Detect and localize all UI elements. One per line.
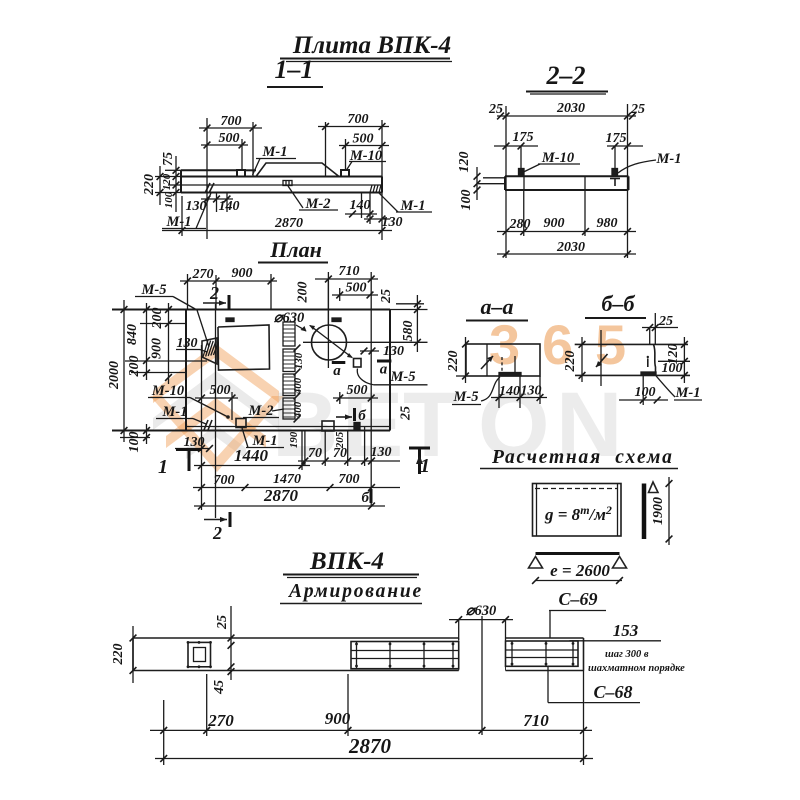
a-a dim line 220: [465, 337, 467, 383]
svg-text:T: T: [403, 374, 459, 476]
plan ext x187: [187, 274, 189, 310]
plan dim line 1440: [194, 465, 310, 467]
plan embed small b: [354, 423, 360, 430]
2-2 cut continuation lines left: [483, 177, 505, 179]
plan dim line 500 mid: [333, 397, 378, 399]
svg-text:М-1: М-1: [162, 404, 188, 420]
svg-text:710: 710: [523, 711, 549, 730]
a-a box: [466, 344, 540, 376]
svg-text:М-10: М-10: [151, 383, 184, 399]
svg-text:200: 200: [150, 308, 165, 330]
plan strip ticks: [294, 345, 301, 352]
arm dim line 270/900/710: [150, 729, 592, 731]
a-a dim line 140/130: [491, 397, 547, 399]
svg-text:25: 25: [215, 615, 230, 630]
svg-text:⌀630: ⌀630: [466, 603, 496, 619]
svg-text:Расчетная схема: Расчетная схема: [491, 447, 674, 468]
svg-text:130: 130: [383, 344, 404, 359]
plan ext x371 tall: [370, 272, 372, 507]
section 1-1 slab right edge: [381, 177, 383, 193]
svg-text:900: 900: [232, 266, 253, 281]
plan dim line 580: [416, 295, 418, 352]
ext line x216: [216, 193, 218, 213]
svg-text:e = 2600: e = 2600: [550, 561, 610, 580]
section 1-1 slab bottom line: [181, 192, 382, 194]
plan dim line 270/900: [180, 280, 277, 282]
band bottom left part: [133, 670, 459, 672]
watermark hexagon logo chevron 1: [153, 344, 279, 403]
dim line 75/120/100 left: [175, 156, 177, 212]
svg-text:700: 700: [221, 114, 242, 129]
d630 ext lines: [458, 620, 460, 640]
svg-text:70: 70: [333, 446, 347, 461]
svg-text:175: 175: [513, 130, 534, 145]
watermark digits 365: [489, 313, 626, 376]
skhema dim line 1900: [668, 477, 670, 545]
a-a bar slash: [481, 356, 493, 369]
watermark hexagon logo chevron 3: [166, 398, 266, 448]
plan ext x347: [347, 431, 349, 467]
svg-text:25: 25: [379, 289, 394, 304]
b-b bar slash: [596, 354, 608, 367]
plan dim line 70/70/130: [298, 460, 400, 462]
svg-text:280: 280: [509, 217, 531, 232]
plan ext x339: [339, 288, 341, 301]
watermark hexagon logo chevron 4: [186, 425, 246, 459]
svg-text:200: 200: [127, 356, 142, 378]
2-2 ext x523 bottom: [523, 190, 525, 236]
2-2 ext left x506 tall: [505, 106, 507, 258]
svg-text:М-1: М-1: [675, 385, 701, 401]
a-a underline: [466, 320, 528, 322]
label 1-1 underline: [267, 86, 323, 88]
2-2 inner vertical x585: [584, 176, 586, 190]
plan ext x201 low: [201, 470, 203, 510]
2-2 slab top: [505, 175, 629, 177]
skhema support left: [529, 557, 543, 569]
a-a inner vertical: [486, 344, 488, 376]
svg-text:140: 140: [499, 384, 520, 399]
cut a left bar: [332, 361, 346, 364]
band dim 220: [132, 626, 134, 683]
plan ext x232: [231, 392, 233, 420]
bent bar M-1 trapezoid: [256, 163, 339, 177]
double slash mark on slab left: [205, 183, 210, 193]
b-b tail curve: [656, 376, 675, 397]
dim line 500 left: [201, 144, 248, 146]
2-2 inner vertical x524: [523, 176, 525, 190]
plan bottom edge inner: [186, 426, 390, 428]
b-b bottom line: [575, 374, 690, 376]
svg-text:g = 8т/м2: g = 8т/м2: [544, 503, 612, 524]
skhema dashed top: [535, 488, 618, 490]
d630 dim line: [449, 619, 513, 621]
plan bottom edge outer: [112, 430, 390, 432]
svg-text:140: 140: [219, 199, 240, 214]
extension line x242: [241, 139, 243, 170]
section 1-1 slab mid line: [181, 184, 382, 186]
svg-text:М-5: М-5: [390, 369, 416, 385]
svg-text:500: 500: [346, 281, 367, 296]
label 130 circle embed: [360, 350, 379, 352]
svg-text:шахматном порядке: шахматном порядке: [588, 663, 685, 674]
embed M-2 mark on mid line: [283, 181, 292, 186]
svg-text:200: 200: [296, 282, 311, 304]
2-2 slab bottom: [505, 189, 629, 191]
svg-text:б–б: б–б: [602, 291, 636, 316]
a-a embed plate M-5: [499, 373, 521, 377]
plan ext x302: [301, 431, 303, 471]
cut 1 right marker: [409, 447, 430, 450]
skhema rect inner right: [617, 484, 619, 537]
svg-text:700: 700: [348, 112, 369, 127]
cage 2 outer: [351, 642, 459, 669]
section 1-1 slab top line: [181, 176, 382, 178]
cage 1 dots: [187, 641, 190, 644]
plan right edge: [389, 310, 391, 431]
dim line 2870 (1-1): [162, 230, 392, 232]
svg-text:С–69: С–69: [558, 589, 597, 609]
cage 3 dots: [511, 642, 514, 645]
svg-text:С–68: С–68: [593, 682, 632, 702]
skhema underline: [480, 468, 678, 470]
title underline: [280, 58, 450, 60]
plan wedge vertical line: [201, 345, 203, 470]
b-b ext 25 lines: [649, 328, 651, 345]
svg-text:а–а: а–а: [481, 294, 514, 319]
b-b short bar: [647, 359, 649, 368]
cage 2 inner lines: [351, 650, 459, 652]
svg-text:2: 2: [212, 523, 222, 543]
svg-text:175: 175: [606, 131, 627, 146]
svg-text:М-5: М-5: [141, 282, 167, 298]
S-69 underline: [549, 610, 606, 612]
b-b right edge wavy: [654, 344, 656, 375]
band top left part: [133, 637, 459, 639]
plan witness top right: [390, 309, 428, 311]
svg-text:130: 130: [521, 384, 542, 399]
skhema beam line: [536, 552, 620, 555]
plan witness y361: [125, 360, 207, 362]
dim line 700 right: [318, 126, 389, 128]
svg-text:М-1: М-1: [262, 144, 288, 160]
svg-text:100: 100: [662, 361, 683, 376]
svg-text:25: 25: [630, 102, 645, 117]
plan ext x216 top: [215, 275, 217, 310]
2-2 slab right edge: [628, 176, 630, 190]
svg-text:700: 700: [339, 472, 360, 487]
plan strip segment 4: [283, 398, 295, 419]
svg-text:2–2: 2–2: [546, 61, 586, 90]
plan double slash bottom left: [204, 420, 208, 430]
svg-text:1: 1: [420, 455, 430, 477]
2-2 embed plate right: [612, 169, 618, 177]
cage 3 outer: [506, 641, 579, 666]
svg-text:140: 140: [350, 198, 371, 213]
hatch right end zone: [370, 185, 372, 193]
plan embed M-1 square: [236, 419, 246, 428]
2-2 dim line 280/900/980: [497, 231, 636, 233]
b-b witness y361: [658, 360, 690, 362]
dim line 500 right: [339, 145, 389, 147]
plan strip segment 1: [283, 322, 295, 346]
plan witness y323: [140, 323, 186, 325]
svg-text:500: 500: [219, 131, 240, 146]
arm ext x163: [163, 700, 165, 765]
embed plate M-10 on slab: [341, 170, 349, 177]
a-a dashed bar: [501, 357, 503, 374]
svg-text:1: 1: [158, 456, 168, 478]
svg-text:130: 130: [371, 445, 392, 460]
section 1-1 slab left edge: [180, 170, 182, 192]
band bottom right part: [506, 670, 584, 672]
cage 2 dividers: [356, 642, 358, 669]
plan dim line 2000: [123, 300, 125, 442]
2-2 dim line 2030 bottom: [497, 253, 636, 255]
svg-text:220: 220: [142, 174, 157, 196]
2-2 slab left edge: [504, 176, 506, 190]
a-a ext lines bottom: [498, 376, 500, 408]
2-2 dim line 2030 top: [497, 115, 636, 117]
plan dim line 100 bl: [146, 424, 148, 444]
plan dim line 700/1470/700: [193, 487, 400, 489]
VPK-4 underline: [283, 574, 419, 576]
svg-text:2870: 2870: [274, 216, 303, 231]
arm ext x583 low: [583, 671, 585, 766]
svg-text:220: 220: [563, 351, 578, 373]
svg-text:100: 100: [635, 385, 656, 400]
plan witness y437: [120, 437, 150, 439]
plan dim line 840/200 col: [146, 303, 148, 380]
svg-text:900: 900: [325, 709, 351, 728]
ticks 130/140 left: [204, 196, 211, 203]
Plan underline: [258, 262, 328, 264]
svg-text:М-1: М-1: [656, 151, 682, 167]
embed plate M-1 on slab: [237, 170, 245, 177]
band left edge: [132, 638, 134, 671]
plan M-5 corner wedge: [202, 338, 217, 364]
dim line 130 br: [364, 218, 390, 220]
skhema support right: [613, 557, 627, 569]
cage 1 inner: [194, 648, 206, 662]
plan ext x339 mid: [339, 392, 341, 404]
watermark word BETON: [272, 374, 622, 476]
section 1-1 slab lip top line: [181, 169, 237, 171]
svg-text:2030: 2030: [556, 240, 585, 255]
skhema dim line e: [536, 580, 623, 582]
svg-text:25: 25: [658, 314, 673, 329]
svg-text:130: 130: [177, 336, 198, 351]
svg-text:ВПК-4: ВПК-4: [309, 548, 384, 575]
svg-text:500: 500: [347, 383, 368, 398]
plan dim line 500 tr: [332, 294, 378, 296]
svg-text:120: 120: [161, 173, 173, 190]
svg-text:шаг 300 в: шаг 300 в: [605, 649, 649, 660]
b-b dim line 120/100 right: [683, 337, 685, 383]
svg-text:900: 900: [150, 338, 165, 359]
band hole right edge: [505, 638, 507, 671]
plan left edge: [185, 310, 187, 431]
svg-text:б: б: [362, 490, 370, 506]
svg-text:75: 75: [161, 152, 176, 166]
ext line x182 bottom: [181, 196, 183, 236]
svg-text:980: 980: [597, 216, 618, 231]
dim line 25/45: [230, 606, 232, 680]
svg-text:710: 710: [339, 264, 360, 279]
svg-text:План: План: [269, 237, 322, 262]
2-2 dim line 175 left: [494, 145, 538, 147]
svg-text:70: 70: [308, 446, 322, 461]
cage 2 dots: [355, 643, 358, 646]
svg-text:25: 25: [399, 406, 414, 421]
svg-text:45: 45: [212, 680, 227, 695]
cage 3 inner lines: [506, 649, 579, 651]
extension line x382 tall: [381, 120, 383, 240]
extension line x325: [325, 122, 327, 176]
cut b top marker: [336, 416, 352, 418]
cage 1 outer: [188, 642, 211, 666]
svg-text:270: 270: [192, 267, 214, 282]
ext line x227: [226, 193, 228, 213]
band top right part: [506, 637, 584, 639]
plan witness 25 top: [396, 303, 424, 305]
extension line x345: [345, 139, 347, 170]
plan square opening: [218, 325, 270, 370]
plan ext x304: [304, 431, 306, 467]
svg-text:220: 220: [111, 644, 126, 666]
plan strip segment 3: [283, 374, 295, 396]
2-2 ext x615 embed: [614, 146, 616, 168]
b-b ext 100 bottom: [642, 376, 644, 405]
svg-text:а: а: [333, 363, 341, 379]
skhema thick edge line: [642, 484, 647, 540]
dim line 140 br: [345, 213, 377, 215]
svg-text:130: 130: [293, 352, 305, 369]
svg-text:1900: 1900: [651, 497, 666, 525]
extension line x207: [206, 118, 208, 239]
svg-text:⌀630: ⌀630: [274, 310, 304, 326]
svg-text:1440: 1440: [234, 446, 269, 465]
plan circle diagonal: [310, 326, 352, 358]
2-2 underline: [526, 91, 608, 93]
plan ext x271: [270, 274, 272, 310]
cut 2 bottom marker: [204, 519, 227, 521]
svg-text:270: 270: [207, 711, 234, 730]
2-2 left dim line 120/100: [476, 167, 478, 200]
plan embed dash left: [226, 318, 234, 322]
svg-text:М-5: М-5: [453, 389, 479, 405]
svg-text:190: 190: [288, 431, 300, 448]
a-a bottom extension: [456, 375, 466, 377]
plan circle opening d630: [312, 325, 347, 360]
dim line 220 left: [159, 166, 161, 205]
svg-text:2: 2: [209, 283, 219, 303]
svg-text:1470: 1470: [273, 472, 301, 487]
a-a solid bar: [514, 356, 516, 374]
cut line 2: [215, 304, 217, 518]
svg-text:2870: 2870: [263, 486, 299, 505]
svg-text:М-1: М-1: [166, 214, 192, 230]
b-b dim line 25 top: [642, 327, 678, 329]
svg-text:2870: 2870: [348, 734, 392, 758]
section 1-1 lip segment after embed: [245, 169, 256, 171]
svg-text:900: 900: [544, 216, 565, 231]
plan embed dash right: [332, 318, 341, 322]
plan dim line 2870: [194, 505, 385, 507]
skhema triangle top: [649, 482, 659, 493]
svg-text:153: 153: [613, 621, 639, 640]
svg-text:100: 100: [163, 191, 175, 208]
2-2 T mark below right embed: [610, 178, 620, 180]
b-b embed plate M-1: [641, 372, 656, 375]
plan circle vertical axis: [327, 281, 329, 368]
plan top edge: [112, 309, 390, 311]
2-2 ext x521 embed: [520, 146, 522, 168]
svg-text:1–1: 1–1: [275, 55, 314, 84]
witness lines slab left: [165, 169, 181, 171]
svg-text:130: 130: [186, 199, 207, 214]
plan witness y372: [131, 372, 187, 374]
plan ext x364: [364, 427, 366, 467]
skhema rect: [533, 484, 622, 537]
plan dim line 200/900 col: [168, 303, 170, 384]
svg-text:М-2: М-2: [248, 403, 274, 419]
svg-text:100: 100: [127, 432, 142, 453]
b-b inner vertical: [600, 330, 602, 386]
cage 3 dividers: [511, 641, 513, 666]
2-2 embed plate left: [519, 169, 525, 177]
svg-text:Плита ВПК-4: Плита ВПК-4: [292, 32, 451, 59]
svg-text:700: 700: [214, 473, 235, 488]
svg-text:100: 100: [459, 190, 474, 211]
plan dim line 710: [315, 278, 378, 280]
svg-text:220: 220: [446, 351, 461, 373]
arm ext x348: [347, 674, 349, 736]
svg-text:а: а: [380, 362, 388, 378]
b-b dim line 220: [581, 337, 583, 382]
svg-text:500: 500: [353, 132, 374, 147]
plan small square embed b: [354, 359, 362, 368]
2-2 ext right x627 tall: [627, 104, 629, 258]
svg-text:400: 400: [292, 377, 304, 395]
plan strip segment 2: [283, 349, 295, 372]
plan ext x325: [324, 431, 326, 466]
arm dim line 2870: [155, 758, 593, 760]
cut a right bar: [377, 360, 391, 363]
band hole left edge: [458, 638, 460, 671]
svg-text:2030: 2030: [556, 101, 585, 116]
svg-text:2000: 2000: [107, 361, 122, 390]
plan dim line 500 bl: [195, 397, 238, 399]
b-b top line: [575, 343, 688, 345]
svg-text:580: 580: [401, 321, 416, 342]
plan embed rect cut2: [322, 421, 334, 431]
dim line 700 left: [199, 127, 262, 129]
ext line x361: [361, 193, 363, 219]
svg-text:25: 25: [488, 102, 503, 117]
watermark hexagon logo bottom V: [150, 396, 284, 472]
svg-text:400: 400: [292, 401, 304, 419]
arm ext x206: [206, 674, 208, 736]
2-2 dim line 175 right: [607, 145, 643, 147]
svg-text:500: 500: [210, 383, 231, 398]
S-69 leader: [549, 611, 551, 639]
skhema rect inner left: [536, 484, 538, 537]
svg-text:Армирование: Армирование: [287, 581, 423, 602]
watermark hexagon logo chevron 2: [153, 371, 279, 430]
plan circle horizontal axis: [303, 341, 428, 343]
b-b underline: [585, 317, 646, 319]
